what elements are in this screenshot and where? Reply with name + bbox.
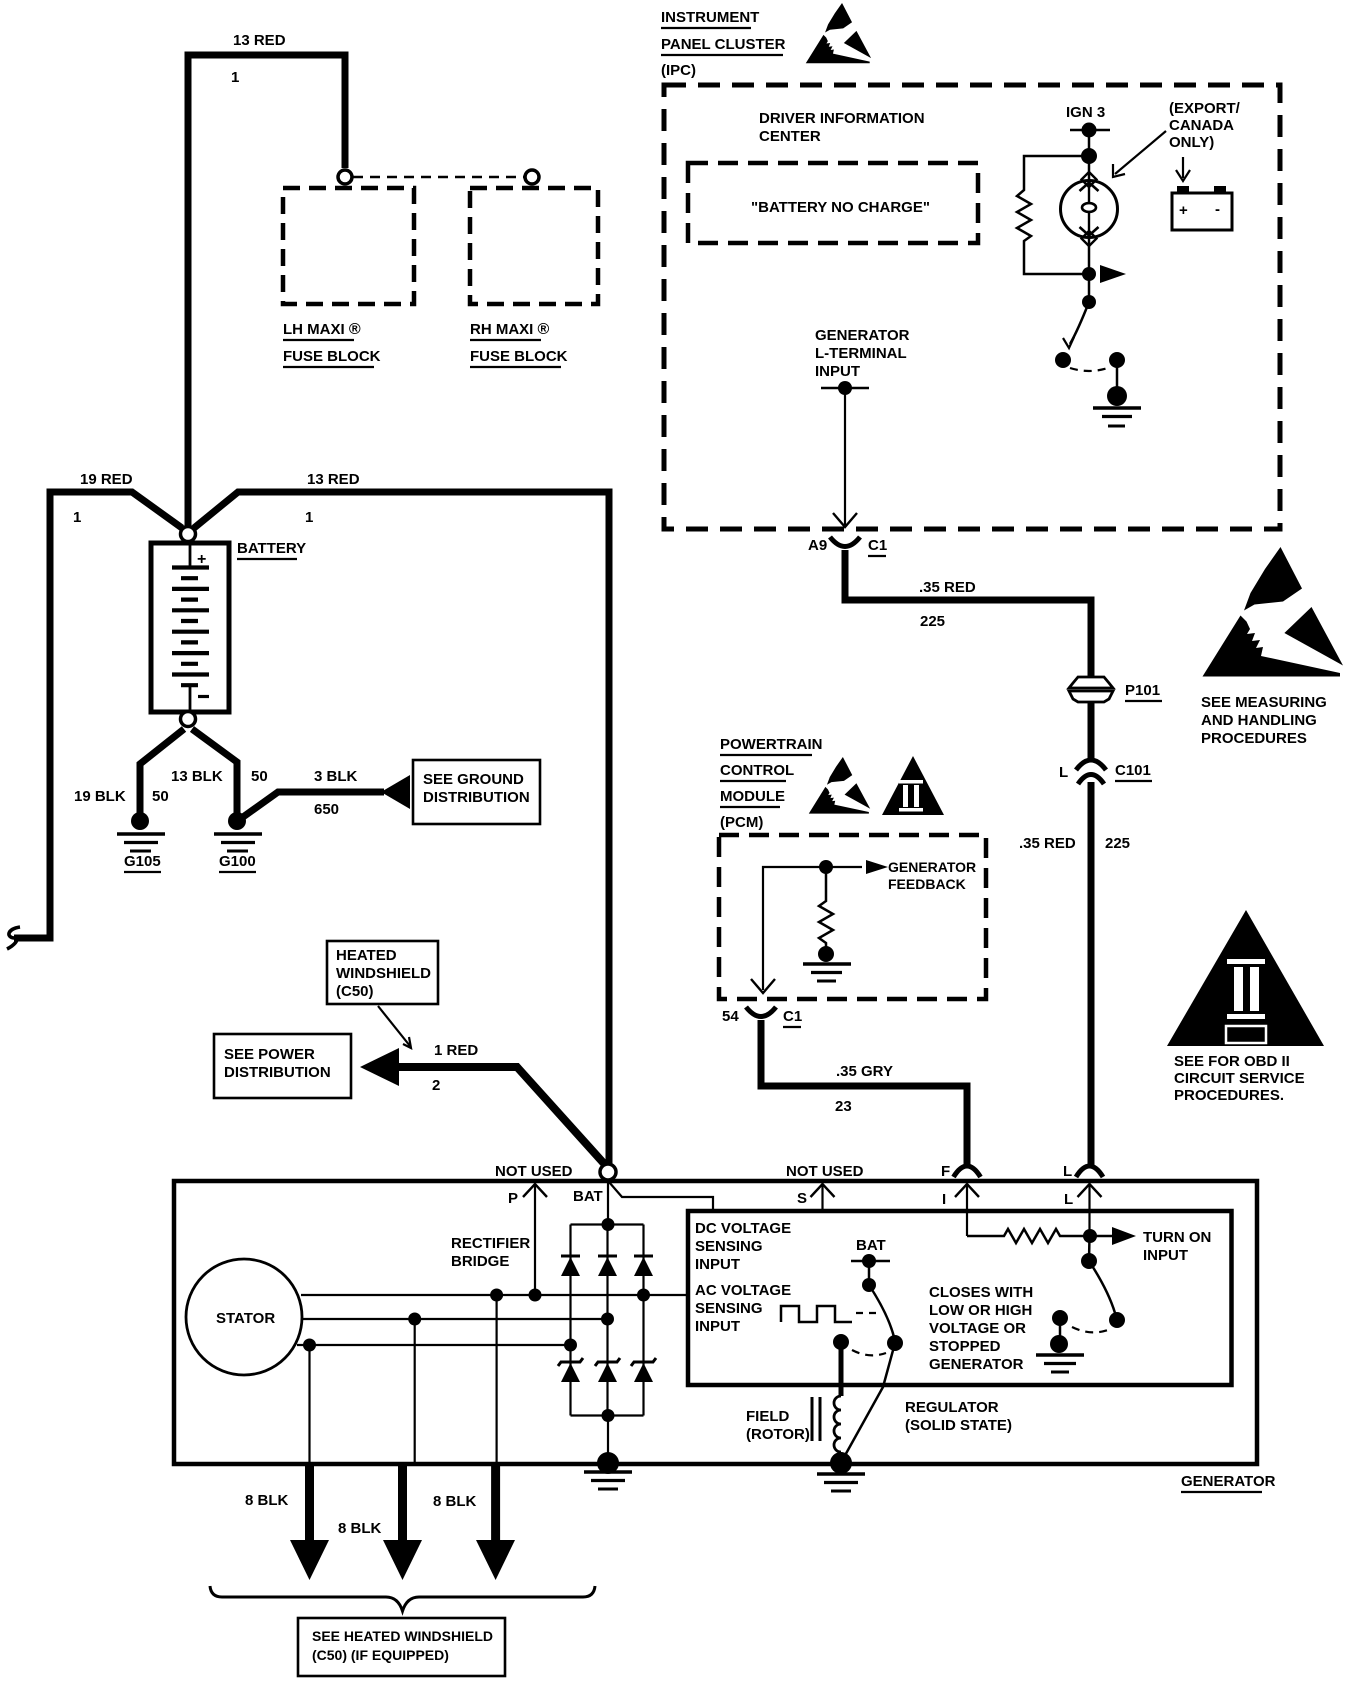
svg-text:-: - — [1215, 201, 1220, 218]
svg-text:SEE FOR OBD II: SEE FOR OBD II — [1174, 1053, 1290, 1070]
wire dashed link between fuse blocks — [353, 176, 524, 178]
svg-text:ONLY): ONLY) — [1169, 134, 1214, 151]
wire to regulator ground — [1059, 1318, 1062, 1340]
wire 8 BLK (left) — [290, 1464, 329, 1580]
svg-text:RECTIFIER: RECTIFIER — [451, 1235, 530, 1252]
node L-terminal input — [838, 381, 852, 395]
svg-text:FUSE BLOCK: FUSE BLOCK — [470, 348, 568, 365]
svg-text:13 RED: 13 RED — [233, 32, 286, 49]
battery symbol — [151, 541, 229, 712]
svg-text:L-TERMINAL: L-TERMINAL — [815, 345, 907, 362]
zener diode Z3 (lower, phase1 column) — [631, 1295, 656, 1416]
ground (IPC switch) — [1093, 386, 1141, 426]
connector L C101 — [1059, 760, 1152, 784]
node rectifier bottom — [602, 1409, 615, 1422]
stator phase wire 1 — [301, 1294, 688, 1296]
OBD II warning triangle (large) — [1167, 910, 1324, 1046]
label 19 RED circuit 1 — [73, 471, 133, 526]
svg-text:CANADA: CANADA — [1169, 117, 1234, 134]
connector 54 C1 — [722, 1007, 802, 1027]
svg-text:C101: C101 — [1115, 762, 1151, 779]
label TURN ON INPUT — [1143, 1229, 1211, 1264]
label POWERTRAIN CONTROL MODULE (PCM) — [720, 736, 823, 831]
node L switch ground contact — [1052, 1310, 1068, 1326]
BAT switch travel arc (dashed) — [852, 1350, 886, 1355]
ESD warning triangle (IPC) — [806, 3, 871, 63]
svg-text:FIELD: FIELD — [746, 1408, 789, 1425]
ground (PCM) — [803, 946, 851, 981]
svg-text:L: L — [1063, 1163, 1072, 1180]
L-terminal input rail — [821, 387, 869, 390]
svg-text:3 BLK: 3 BLK — [314, 768, 358, 785]
switch travel arc (dashed) — [1070, 368, 1108, 371]
svg-text:A9: A9 — [808, 537, 827, 554]
wire 13 RED (battery to fuse blocks) — [188, 55, 345, 530]
svg-text:GENERATOR: GENERATOR — [1181, 1473, 1276, 1490]
LH MAXI fuse block (dashed box) — [283, 188, 414, 367]
svg-text:G100: G100 — [219, 853, 256, 870]
label 3 BLK 650 — [314, 768, 358, 818]
terminal L arrow — [1064, 1184, 1102, 1236]
svg-text:WINDSHIELD: WINDSHIELD — [336, 965, 431, 982]
svg-text:LOW OR HIGH: LOW OR HIGH — [929, 1302, 1032, 1319]
note SEE MEASURING AND HANDLING PROCEDURES — [1201, 694, 1327, 747]
label (EXPORT/CANADA ONLY) — [1169, 100, 1241, 151]
label 13 RED circuit 1 — [231, 32, 286, 86]
resistor (turn on) — [967, 1229, 1090, 1243]
ground (generator case, field) — [817, 1452, 865, 1491]
label .35 RED 225 — [919, 579, 976, 630]
terminal S arrow — [797, 1184, 835, 1210]
wire .35 RED (P101 to C101) — [1088, 702, 1095, 760]
label RECTIFIER BRIDGE — [451, 1235, 530, 1270]
ESD warning triangle (large) — [1203, 547, 1344, 677]
label DC VOLTAGE SENSING INPUT — [695, 1220, 791, 1273]
svg-text:SENSING: SENSING — [695, 1300, 763, 1317]
svg-text:GENERATOR: GENERATOR — [815, 327, 910, 344]
svg-text:DRIVER INFORMATION: DRIVER INFORMATION — [759, 110, 925, 127]
node phase junctions on columns — [564, 1289, 650, 1352]
svg-text:C1: C1 — [783, 1008, 802, 1025]
wire moving contact to field/ground — [843, 1343, 895, 1459]
label INSTRUMENT PANEL CLUSTER (IPC) — [661, 9, 786, 79]
svg-text:.35 GRY: .35 GRY — [836, 1063, 893, 1080]
node BAT switch contact (moving end) — [887, 1335, 903, 1351]
svg-text:INPUT: INPUT — [695, 1318, 740, 1335]
svg-text:DISTRIBUTION: DISTRIBUTION — [423, 789, 530, 806]
wire 8 BLK (middle) — [383, 1464, 422, 1580]
svg-text:INPUT: INPUT — [815, 363, 860, 380]
BAT contact rail — [851, 1260, 890, 1263]
svg-text:50: 50 — [251, 768, 268, 785]
svg-text:REGULATOR: REGULATOR — [905, 1399, 999, 1416]
stator phase wire 2 — [303, 1318, 608, 1320]
RH MAXI fuse block (dashed box) — [470, 188, 598, 367]
wire lamp bottom — [1088, 238, 1091, 302]
label 13 BLK 50 — [171, 768, 268, 785]
diode D3 (upper, phase1 column) — [634, 1225, 653, 1296]
terminal F connector — [941, 1163, 981, 1180]
splice node at LH fuse block — [338, 170, 352, 184]
BAT switch arm — [869, 1285, 894, 1337]
zener diode Z2 (lower, phase2 column) — [595, 1319, 620, 1416]
callout arrow to lamp — [1113, 131, 1166, 177]
wire .35 RED 225 (A9 to P101) — [845, 550, 1091, 676]
wire 1 RED to power distribution — [395, 1067, 608, 1168]
svg-text:POWERTRAIN: POWERTRAIN — [720, 736, 823, 753]
svg-text:MODULE: MODULE — [720, 788, 785, 805]
box "BATTERY NO CHARGE" (dashed) — [688, 163, 978, 243]
svg-text:G105: G105 — [124, 853, 161, 870]
wire phase2 to case — [414, 1319, 416, 1462]
svg-text:(C50): (C50) — [336, 983, 374, 1000]
svg-text:8 BLK: 8 BLK — [245, 1492, 289, 1509]
svg-text:VOLTAGE OR: VOLTAGE OR — [929, 1320, 1026, 1337]
ground G100 — [214, 812, 262, 872]
callout arrow from heated windshield box — [378, 1006, 411, 1048]
wire continuation squiggle — [7, 927, 20, 949]
svg-text:1: 1 — [73, 509, 81, 526]
generator feedback circuit — [751, 867, 826, 993]
svg-text:I: I — [942, 1191, 946, 1208]
PCM dashed box — [719, 835, 986, 999]
indicator lamp BATTERY NO CHARGE — [1061, 172, 1118, 246]
svg-text:NOT USED: NOT USED — [786, 1163, 864, 1180]
svg-text:RH MAXI ®: RH MAXI ® — [470, 321, 550, 338]
wire L-terminal input down to A9 — [833, 388, 857, 527]
svg-text:P: P — [508, 1190, 518, 1207]
svg-text:STATOR: STATOR — [216, 1310, 275, 1327]
svg-text:SEE GROUND: SEE GROUND — [423, 771, 524, 788]
svg-text:L: L — [1064, 1191, 1073, 1208]
box SEE HEATED WINDSHIELD (C50) (IF EQUIPPED) — [298, 1618, 505, 1676]
svg-text:FUSE BLOCK: FUSE BLOCK — [283, 348, 381, 365]
wire IGN3 down — [1088, 130, 1091, 180]
wire .35 GRY 23 (PCM to generator F) — [761, 1020, 967, 1166]
svg-text:F: F — [941, 1163, 950, 1180]
wire BAT to pivot — [868, 1261, 871, 1285]
svg-text:SEE MEASURING: SEE MEASURING — [1201, 694, 1327, 711]
node switch contact right — [1109, 352, 1125, 368]
svg-text:1 RED: 1 RED — [434, 1042, 478, 1059]
label .35 GRY 23 — [835, 1063, 893, 1115]
svg-text:FEEDBACK: FEEDBACK — [888, 876, 966, 892]
terminal L connector — [1063, 1163, 1103, 1180]
node turn-on junction — [1083, 1229, 1097, 1243]
svg-text:INSTRUMENT: INSTRUMENT — [661, 9, 759, 26]
svg-text:.35 RED: .35 RED — [1019, 835, 1076, 852]
label GENERATOR L-TERMINAL INPUT — [815, 327, 910, 380]
node BAT switch pivot — [862, 1278, 876, 1292]
svg-text:650: 650 — [314, 801, 339, 818]
svg-text:PROCEDURES.: PROCEDURES. — [1174, 1087, 1284, 1104]
svg-text:OBDII: OBDII — [1231, 1031, 1259, 1042]
node field contact — [833, 1334, 849, 1350]
node lamp top junction — [1081, 148, 1097, 164]
note SEE FOR OBD II CIRCUIT SERVICE PROCEDURES. — [1174, 1053, 1305, 1104]
dashed link square wave to switch — [856, 1312, 876, 1314]
svg-text:50: 50 — [152, 788, 169, 805]
svg-text:CONTROL: CONTROL — [720, 762, 794, 779]
svg-text:13 RED: 13 RED — [307, 471, 360, 488]
wire to IPC ground — [1116, 360, 1119, 392]
generator box — [174, 1181, 1257, 1464]
svg-text:8 BLK: 8 BLK — [338, 1520, 382, 1537]
svg-text:BAT: BAT — [856, 1237, 886, 1254]
label GENERATOR — [1181, 1473, 1276, 1492]
svg-text:54: 54 — [722, 1008, 739, 1025]
node battery negative terminal — [181, 712, 196, 727]
splice node at RH fuse block — [525, 170, 539, 184]
OBD II warning triangle (PCM) — [882, 756, 944, 815]
square wave symbol (AC sense) — [781, 1306, 852, 1322]
svg-text:SEE HEATED WINDSHIELD: SEE HEATED WINDSHIELD — [312, 1628, 493, 1644]
diode D2 (upper, phase2 column) — [598, 1225, 617, 1320]
svg-text:AC VOLTAGE: AC VOLTAGE — [695, 1282, 791, 1299]
svg-text:P101: P101 — [1125, 682, 1160, 699]
wire .35 RED 225 (C101 to generator L) — [1088, 782, 1095, 1166]
svg-text:CENTER: CENTER — [759, 128, 821, 145]
svg-text:"BATTERY NO CHARGE": "BATTERY NO CHARGE" — [751, 199, 930, 216]
svg-text:SEE POWER: SEE POWER — [224, 1046, 315, 1063]
label AC VOLTAGE SENSING INPUT — [695, 1282, 791, 1335]
IGN 3 feed rail — [1070, 129, 1110, 132]
wire junction to L switch pivot — [1088, 1236, 1091, 1261]
node L switch contact (moving end) — [1109, 1312, 1125, 1328]
svg-text:GENERATOR: GENERATOR — [888, 859, 976, 875]
node rectifier top — [602, 1218, 615, 1231]
node BAT rail — [862, 1254, 876, 1268]
svg-text:INPUT: INPUT — [695, 1256, 740, 1273]
svg-text:1: 1 — [305, 509, 313, 526]
label 13 RED circuit 1 — [305, 471, 360, 526]
wire rectifier to case ground — [607, 1416, 609, 1463]
svg-text:225: 225 — [920, 613, 945, 630]
svg-text:+: + — [1179, 202, 1188, 219]
svg-text:(EXPORT/: (EXPORT/ — [1169, 100, 1241, 117]
svg-text:GENERATOR: GENERATOR — [929, 1356, 1024, 1373]
rectifier top rail — [571, 1223, 644, 1225]
svg-text:TURN ON: TURN ON — [1143, 1229, 1211, 1246]
field winding (rotor) — [812, 1342, 841, 1460]
wire 19 RED (left feed) — [14, 492, 182, 938]
svg-text:L: L — [1059, 764, 1068, 781]
svg-text:BAT: BAT — [573, 1188, 603, 1205]
wire 13 BLK to G100 — [192, 729, 237, 814]
svg-text:(ROTOR): (ROTOR) — [746, 1426, 810, 1443]
svg-text:1: 1 — [231, 69, 239, 86]
svg-text:STOPPED: STOPPED — [929, 1338, 1001, 1355]
svg-text:CLOSES WITH: CLOSES WITH — [929, 1284, 1033, 1301]
node lamp bottom junction — [1082, 267, 1096, 281]
brace — [210, 1586, 595, 1611]
label GENERATOR FEEDBACK — [888, 859, 976, 892]
wire phase1 to case — [496, 1295, 498, 1462]
ground G105 — [117, 812, 165, 872]
connector P101 (bulkhead) — [1069, 677, 1162, 702]
svg-text:IGN 3: IGN 3 — [1066, 104, 1105, 121]
arrow to L-terminal output — [1100, 265, 1126, 283]
off-page arrow (ground distribution) — [381, 775, 410, 809]
regulator box — [688, 1211, 1232, 1385]
svg-text:13 BLK: 13 BLK — [171, 768, 223, 785]
svg-text:225: 225 — [1105, 835, 1130, 852]
svg-text:HEATED: HEATED — [336, 947, 397, 964]
L switch arm — [1089, 1261, 1115, 1313]
off-page arrow (power distribution) — [360, 1048, 399, 1086]
svg-text:PANEL CLUSTER: PANEL CLUSTER — [661, 36, 786, 53]
switch arm (IPC) — [1063, 302, 1089, 348]
svg-text:BATTERY: BATTERY — [237, 540, 306, 557]
box SEE POWER DISTRIBUTION — [214, 1034, 351, 1098]
label .35 RED 225 — [1019, 835, 1130, 852]
svg-text:DISTRIBUTION: DISTRIBUTION — [224, 1064, 331, 1081]
svg-text:(IPC): (IPC) — [661, 62, 696, 79]
svg-text:8 BLK: 8 BLK — [433, 1493, 477, 1510]
node switch pivot — [1082, 295, 1096, 309]
battery icon (export) — [1172, 186, 1232, 230]
svg-text:23: 23 — [835, 1098, 852, 1115]
wire 3 BLK to ground distribution — [243, 792, 384, 817]
label BATTERY — [237, 540, 306, 559]
resistor (PCM pull-up) — [819, 867, 833, 947]
svg-text:(PCM): (PCM) — [720, 814, 763, 831]
label REGULATOR (SOLID STATE) — [905, 1399, 1012, 1434]
svg-text:CIRCUIT SERVICE: CIRCUIT SERVICE — [1174, 1070, 1305, 1087]
wire 19 BLK to G105 — [140, 729, 184, 816]
terminal I arrow — [942, 1184, 979, 1236]
L switch travel arc (dashed) — [1072, 1327, 1108, 1332]
terminal P arrow — [508, 1184, 547, 1295]
rectifier bottom rail — [571, 1414, 644, 1416]
svg-text:SENSING: SENSING — [695, 1238, 763, 1255]
callout arrow to battery icon — [1176, 157, 1190, 181]
svg-text:S: S — [797, 1190, 807, 1207]
svg-text:NOT USED: NOT USED — [495, 1163, 573, 1180]
ESD warning triangle (PCM) — [809, 757, 870, 814]
arrow GENERATOR FEEDBACK — [826, 860, 888, 874]
stator phase wire 3 — [297, 1344, 571, 1346]
svg-text:.35 RED: .35 RED — [919, 579, 976, 596]
svg-text:LH MAXI ®: LH MAXI ® — [283, 321, 361, 338]
wire phase3 to case — [308, 1345, 310, 1462]
ground (generator case, rectifier) — [584, 1452, 632, 1489]
svg-text:(C50) (IF EQUIPPED): (C50) (IF EQUIPPED) — [312, 1647, 449, 1663]
node phase2 tap — [408, 1313, 421, 1326]
box SEE GROUND DISTRIBUTION — [413, 760, 540, 824]
svg-text:2: 2 — [432, 1077, 440, 1094]
node battery positive terminal — [181, 527, 196, 542]
svg-text:AND HANDLING: AND HANDLING — [1201, 712, 1317, 729]
label CLOSES WITH LOW OR HIGH VOLTAGE OR STOPPED GENERATOR — [929, 1284, 1033, 1373]
wire BAT inside generator — [608, 1180, 713, 1224]
connector A9 C1 — [808, 537, 887, 556]
svg-text:DC VOLTAGE: DC VOLTAGE — [695, 1220, 791, 1237]
box HEATED WINDSHIELD (C50) — [327, 941, 438, 1004]
label DRIVER INFORMATION CENTER — [759, 110, 925, 145]
stator — [186, 1259, 302, 1375]
svg-text:(SOLID STATE): (SOLID STATE) — [905, 1417, 1012, 1434]
node phase3 tap — [303, 1339, 316, 1352]
node L switch pivot — [1081, 1253, 1097, 1269]
node switch contact left — [1055, 352, 1071, 368]
svg-text:19 BLK: 19 BLK — [74, 788, 126, 805]
svg-text:C1: C1 — [868, 537, 887, 554]
label 1 RED circuit 2 — [432, 1042, 478, 1094]
arrow TURN ON INPUT — [1090, 1227, 1136, 1245]
node feedback junction — [819, 860, 833, 874]
svg-text:BRIDGE: BRIDGE — [451, 1253, 509, 1270]
diode D1 (upper, phase3 column) — [561, 1225, 580, 1346]
node phase1 taps — [490, 1289, 541, 1302]
label FIELD (ROTOR) — [746, 1408, 810, 1443]
IPC dashed box — [664, 85, 1280, 529]
node BAT splice at generator — [600, 1164, 616, 1180]
label 19 BLK 50 — [74, 788, 169, 805]
svg-text:19 RED: 19 RED — [80, 471, 133, 488]
zener diode Z1 (lower, phase3 column) — [558, 1345, 583, 1416]
ground (regulator) — [1036, 1335, 1084, 1372]
wire 13 RED (battery to generator BAT) — [194, 492, 609, 1165]
wire 8 BLK (right) — [476, 1464, 515, 1580]
svg-text:PROCEDURES: PROCEDURES — [1201, 730, 1307, 747]
svg-text:INPUT: INPUT — [1143, 1247, 1188, 1264]
resistor (lamp shunt) — [1017, 156, 1089, 274]
node IGN3 — [1082, 123, 1097, 138]
